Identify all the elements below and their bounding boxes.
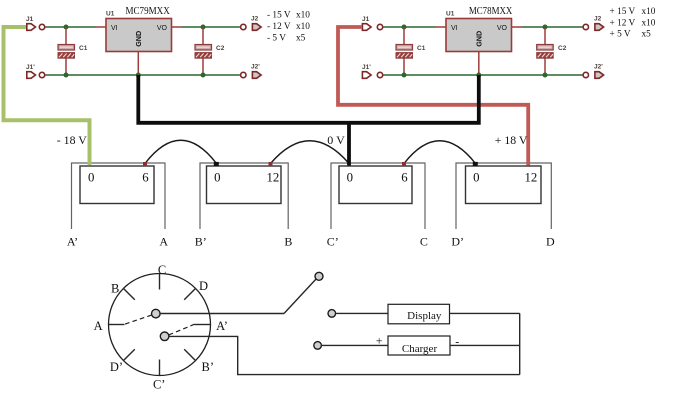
svg-text:C1: C1 (79, 45, 88, 52)
C1 positive plate (58, 45, 75, 51)
node junction C2 bottom (543, 73, 548, 78)
terminal marker battery1 6 (143, 162, 147, 166)
wiper 2 pivot (160, 332, 169, 341)
svg-text:D’: D’ (110, 360, 123, 374)
node junction C2 top (201, 25, 206, 30)
display box (388, 304, 450, 324)
C2 positive plate (195, 45, 212, 51)
svg-text:0 V: 0 V (327, 133, 345, 147)
wire C2 bottom pin (544, 58, 546, 75)
pin head J1 (362, 24, 371, 31)
wire -18V green (4, 27, 90, 166)
wire arc battery3 to battery4 (404, 141, 476, 164)
svg-text:MC79MXX: MC79MXX (125, 6, 170, 17)
svg-text:C2: C2 (558, 45, 567, 52)
svg-text:- 5 V: - 5 V (267, 33, 286, 43)
wire VI pin (436, 26, 446, 28)
node junction C1 top (64, 25, 69, 30)
switch S2 terminal (314, 342, 322, 350)
terminal marker battery4 0 (473, 162, 478, 166)
svg-text:C1: C1 (417, 45, 426, 52)
svg-text:x10: x10 (642, 7, 656, 17)
wire C1 bottom pin (65, 58, 67, 75)
svg-text:A’: A’ (67, 234, 78, 248)
svg-text:VO: VO (157, 25, 168, 32)
RIGHT REGULATOR (362, 6, 656, 78)
contact tick A' (195, 324, 211, 326)
svg-text:VO: VO (497, 25, 508, 32)
svg-text:Display: Display (407, 310, 442, 322)
connector J1 (26, 16, 45, 30)
capacitor C2 (195, 27, 225, 75)
LEFT REGULATOR (26, 6, 310, 78)
svg-text:+ 12 V: + 12 V (610, 18, 636, 28)
wiper 2 dashed (169, 324, 195, 335)
svg-text:0: 0 (214, 170, 220, 184)
regulator U1 MC79MXX (106, 6, 172, 75)
wire ground rail (383, 74, 583, 76)
connector J2 (241, 16, 262, 31)
pin ring J2 (583, 24, 588, 29)
C2 negative plate (195, 53, 212, 59)
svg-text:J2': J2' (251, 64, 260, 71)
wire C1 top pin (65, 27, 67, 45)
svg-text:B: B (284, 234, 292, 248)
pin head J1 (27, 24, 36, 31)
pin ring J2' (241, 72, 246, 77)
wire +18V red (338, 27, 528, 166)
contact tick A (109, 324, 125, 326)
rotary selector circle (109, 274, 211, 376)
svg-text:x5: x5 (296, 33, 306, 43)
svg-text:C: C (158, 263, 166, 277)
svg-text:D: D (546, 234, 555, 248)
svg-text:GND: GND (474, 31, 483, 47)
svg-text:J2': J2' (594, 64, 603, 71)
C1 positive plate (396, 45, 413, 51)
contact tick B (123, 288, 134, 299)
regulator U1 MC78MXX (446, 6, 513, 75)
wire VO pin (512, 26, 522, 28)
connector J1' (362, 64, 383, 78)
wire display to bus (449, 312, 520, 314)
battery 2 frame (200, 163, 288, 229)
capacitor C1 (396, 27, 426, 75)
svg-text:A’: A’ (216, 319, 228, 333)
svg-text:D: D (199, 279, 208, 293)
node junction C1 bottom (64, 73, 69, 78)
svg-text:VI: VI (111, 25, 118, 32)
pin head J1' (362, 72, 371, 79)
battery 4 frame (456, 163, 551, 229)
pin ring J1 (377, 24, 382, 29)
battery 1 frame (72, 163, 166, 229)
pin head J2' (252, 72, 261, 79)
battery 2 body (207, 166, 282, 204)
svg-text:J2: J2 (251, 16, 259, 23)
THICK WIRES (4, 27, 529, 166)
battery 3 frame (331, 163, 425, 229)
svg-text:- 15 V: - 15 V (267, 11, 291, 21)
svg-text:12: 12 (525, 170, 538, 184)
wire to display (336, 312, 388, 314)
wire to charger (321, 344, 388, 346)
wire VO net (522, 26, 584, 28)
wire wiper2 to bottom bus (169, 336, 520, 374)
svg-text:0: 0 (347, 170, 353, 184)
svg-text:+: + (376, 333, 383, 347)
wire C1 bottom pin (403, 58, 405, 75)
wire GND pin (137, 52, 139, 76)
svg-text:C’: C’ (327, 234, 339, 248)
U1 body (446, 19, 512, 52)
svg-text:6: 6 (401, 170, 408, 184)
pin head J2' (595, 72, 604, 79)
svg-text:VI: VI (451, 25, 458, 32)
ROTARY SWITCH AND LOADS (94, 263, 520, 392)
svg-text:B’: B’ (202, 360, 215, 374)
pin ring J1' (377, 72, 382, 77)
svg-text:-: - (455, 334, 459, 348)
node junction C2 bottom (201, 73, 206, 78)
svg-text:- 18 V: - 18 V (57, 133, 87, 147)
C1 negative plate (396, 53, 413, 59)
svg-text:- 12 V: - 12 V (267, 22, 291, 32)
contact tick B' (184, 349, 195, 360)
svg-text:B: B (111, 282, 119, 296)
svg-text:12: 12 (267, 170, 280, 184)
svg-text:C: C (420, 234, 428, 248)
switch S1 fixed terminal (328, 310, 336, 318)
svg-text:C2: C2 (216, 45, 225, 52)
svg-text:+ 5 V: + 5 V (610, 30, 631, 40)
connector J2' (583, 64, 604, 79)
svg-text:0: 0 (88, 170, 94, 184)
svg-text:MC78MXX: MC78MXX (469, 6, 513, 17)
wire charger to bus (450, 344, 520, 346)
wire VI net (45, 26, 96, 28)
svg-text:+ 18 V: + 18 V (495, 133, 528, 147)
node junction GND (136, 73, 141, 78)
pin ring J2 (241, 24, 246, 29)
svg-text:C’: C’ (153, 378, 166, 392)
svg-text:6: 6 (142, 170, 149, 184)
U1 body (106, 19, 172, 52)
connector J1 (362, 16, 383, 30)
charger box (388, 336, 450, 355)
svg-text:U1: U1 (446, 11, 455, 18)
wire arc battery1 to battery2 (145, 140, 217, 163)
contact tick D (184, 288, 195, 299)
svg-text:A: A (159, 234, 168, 248)
svg-text:A: A (94, 319, 103, 333)
contact tick C (159, 274, 161, 290)
wire arc battery2 to battery3 (271, 141, 350, 164)
wire C2 top pin (544, 27, 546, 45)
pin ring J1 (39, 24, 44, 29)
wire VI net (383, 26, 436, 28)
capacitor C2 (537, 27, 567, 75)
svg-text:J1: J1 (26, 16, 34, 23)
wire VO net (182, 26, 241, 28)
wiper 1 pivot (152, 309, 161, 318)
wire C2 bottom pin (202, 58, 204, 75)
svg-text:D’: D’ (451, 234, 464, 248)
connector J2' (241, 64, 262, 79)
svg-text:x5: x5 (642, 30, 652, 40)
wire VI pin (96, 26, 106, 28)
wire C2 top pin (202, 27, 204, 45)
terminal marker battery2 12 (269, 162, 273, 166)
BATTERIES (67, 140, 555, 248)
node junction C2 top (543, 25, 548, 30)
connector J2 (583, 16, 604, 31)
svg-text:x10: x10 (296, 22, 310, 32)
svg-text:U1: U1 (106, 11, 115, 18)
svg-text:x10: x10 (296, 11, 310, 21)
battery 1 body (80, 166, 154, 204)
wiper 1 dashed (124, 315, 152, 325)
battery 3 body (339, 166, 412, 204)
node junction C1 bottom (402, 73, 407, 78)
wire 0V black (138, 75, 479, 166)
terminal marker battery3 6 (402, 162, 406, 166)
node junction GND (476, 73, 481, 78)
switch S1 blade (284, 279, 316, 314)
pin head J2 (595, 24, 604, 31)
C2 negative plate (537, 53, 554, 59)
connector J1' (26, 64, 45, 78)
contact tick D' (123, 349, 134, 360)
wire ground rail (45, 74, 240, 76)
switch S1 blade terminal (315, 272, 323, 280)
svg-text:x10: x10 (642, 18, 656, 28)
svg-text:J1': J1' (26, 64, 35, 71)
svg-text:J1': J1' (362, 64, 371, 71)
svg-text:J2: J2 (594, 16, 602, 23)
wire wiper1 out (160, 313, 284, 315)
C1 negative plate (58, 53, 75, 59)
svg-text:J1: J1 (362, 16, 370, 23)
contact tick C' (159, 360, 161, 376)
svg-text:B’: B’ (195, 234, 207, 248)
svg-text:Charger: Charger (402, 343, 438, 355)
pin ring J2' (583, 72, 588, 77)
svg-text:+ 15 V: + 15 V (610, 7, 636, 17)
svg-text:GND: GND (134, 31, 143, 47)
pin head J2 (252, 24, 261, 31)
svg-text:0: 0 (473, 170, 479, 184)
pin ring J1' (39, 72, 44, 77)
battery 4 body (466, 166, 542, 204)
wire GND pin (478, 52, 480, 76)
node junction C1 top (402, 25, 407, 30)
wire C1 top pin (403, 27, 405, 45)
wire VO pin (172, 26, 182, 28)
wire right bus (519, 313, 521, 374)
terminal marker battery2 0 (214, 162, 219, 166)
pin head J1' (27, 72, 36, 79)
capacitor C1 (58, 27, 88, 75)
C2 positive plate (537, 45, 554, 51)
